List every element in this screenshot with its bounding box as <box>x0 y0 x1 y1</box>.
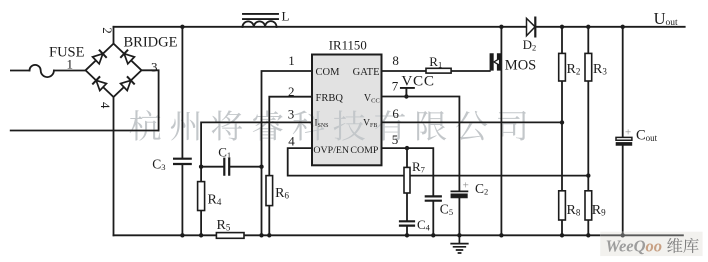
junction dot pin6 R2/R8 <box>560 120 564 124</box>
bridge diode D-d (terminal 4 to 3) <box>120 76 135 91</box>
svg-text:VCC: VCC <box>401 73 434 90</box>
svg-text:8: 8 <box>392 53 399 68</box>
junction dot ground rail C3 <box>180 233 184 237</box>
wire AC input line 1 <box>11 70 30 72</box>
junction dot top rail C3 <box>180 25 184 29</box>
svg-text:4: 4 <box>288 134 295 149</box>
resistor R3 <box>585 53 592 81</box>
junction dot ground rail MOS source <box>499 233 503 237</box>
bridge diode D-c (terminal 4 to 1) <box>92 76 107 91</box>
wire pin 2 FRBQ to R6 <box>269 97 312 176</box>
svg-text:+: + <box>625 126 631 138</box>
wire pin 1 COM to ground <box>262 71 313 235</box>
svg-text:2: 2 <box>288 84 295 99</box>
bridge diode D-a (terminal 1 to 2) <box>92 50 107 65</box>
svg-text:2: 2 <box>100 27 115 34</box>
IC U1 IR1150 body <box>312 55 382 166</box>
svg-text:3: 3 <box>288 107 295 122</box>
wire C3 branch from top rail <box>181 27 183 236</box>
svg-text:IR1150: IR1150 <box>329 38 367 52</box>
junction dot VCC stub <box>404 94 408 98</box>
svg-text:1: 1 <box>67 56 74 71</box>
wire R2 top lead <box>561 27 563 54</box>
wire pin 7 Vcc to C2 <box>382 97 460 191</box>
wire AC input line 2 <box>11 130 159 132</box>
wire pin 4 OVP/EN to R3/R9 divider <box>288 148 589 176</box>
resistor R8 <box>559 191 566 220</box>
svg-text:WeeQoo: WeeQoo <box>606 237 663 256</box>
svg-text:BRIDGE: BRIDGE <box>124 34 178 50</box>
svg-text:FRBQ: FRBQ <box>316 93 344 104</box>
resistor R4 <box>198 182 205 211</box>
capacitor Cout positive plate <box>616 137 632 140</box>
MOSFET Q1 arrow <box>494 59 500 66</box>
resistor R2 <box>559 53 566 81</box>
junction dot ground rail C4 <box>405 233 409 237</box>
junction dot ground rail R6 <box>267 233 271 237</box>
wire bridge terminal 4 down to ground rail <box>113 97 115 235</box>
svg-text:3: 3 <box>151 60 158 75</box>
wire R7 bottom to C4 <box>406 193 408 221</box>
inductor L core bars <box>243 14 278 19</box>
wire R1 to MOS gate <box>451 70 490 72</box>
bridge rectifier BRIDGE diamond <box>86 44 142 97</box>
resistor R5 <box>216 233 244 239</box>
svg-text:GATE: GATE <box>353 67 380 78</box>
wire R3 bottom to OVP node and R9 <box>587 81 589 191</box>
junction dot ground rail C2/earth <box>457 233 461 237</box>
junction dot OVP R3/R9 <box>586 173 590 177</box>
ground symbol <box>451 235 468 253</box>
capacitor C2 negative plate <box>451 194 468 198</box>
junction dot ground rail Cout <box>621 233 625 237</box>
wire bottom ground rail left of R5 <box>114 234 217 236</box>
wire R8 bottom lead <box>561 220 563 235</box>
wire Cout branch <box>622 27 624 236</box>
wire pin 5 COMP to C5 <box>382 148 434 195</box>
wire R7 top lead from COMP node <box>406 148 408 167</box>
junction dot top rail R3 <box>586 25 590 29</box>
junction dot COMP node R7 <box>405 146 409 150</box>
junction dot ground rail R4 <box>199 233 203 237</box>
wire R2 bottom to pin6 node and R8 <box>561 81 563 191</box>
wire pin 8 GATE to R1 <box>382 70 427 72</box>
wire R3 top lead <box>587 27 589 54</box>
power symbol VCC <box>401 88 414 97</box>
svg-text:1: 1 <box>288 53 295 68</box>
wire R4 bottom lead <box>200 211 202 236</box>
wire bridge terminal 2 up to top rail <box>113 27 115 44</box>
capacitor C1 <box>224 159 229 175</box>
svg-text:COMP: COMP <box>350 145 378 156</box>
MOSFET Q1 channel bar <box>497 54 501 71</box>
wire top rail right section (D2 to output) <box>535 26 684 28</box>
inductor L coil <box>243 21 277 27</box>
wire R4 top lead <box>200 167 202 182</box>
svg-text:7: 7 <box>392 79 399 94</box>
wire C4 bottom lead <box>406 227 408 236</box>
watermark box WeeQoo <box>600 232 702 256</box>
wire bottom ground rail right of R5 <box>244 234 684 236</box>
capacitor Cout negative plate <box>616 142 632 145</box>
junction dot ground rail COM <box>259 233 263 237</box>
svg-text:OVP/EN: OVP/EN <box>313 145 349 156</box>
MOSFET Q1 gate bar <box>490 54 494 71</box>
junction dot node Isns (C1/R4) <box>199 165 203 169</box>
resistor R6 <box>266 176 273 206</box>
resistor R1 <box>426 68 451 73</box>
junction dot top rail Cout <box>621 25 625 29</box>
wire top rail left section (to inductor) <box>114 26 243 28</box>
wire R6 bottom to ground rail <box>268 206 270 236</box>
junction dot ground rail R9 <box>586 233 590 237</box>
resistor R7 <box>404 167 410 193</box>
capacitor C3 <box>174 159 191 164</box>
junction dot ground rail C5 <box>431 233 435 237</box>
diode D2 <box>527 18 536 37</box>
wire bridge terminal 3 down to AC line 2 <box>142 70 159 130</box>
junction dot top rail MOS drain <box>499 25 503 29</box>
svg-text:6: 6 <box>392 106 399 121</box>
svg-text:MOS: MOS <box>505 57 536 73</box>
wire top rail middle section (inductor to D2) <box>277 26 527 28</box>
wire fuse to bridge terminal 1 <box>54 70 86 72</box>
wire C1 left lead <box>201 166 223 168</box>
capacitor C4 <box>400 221 414 225</box>
wire R9 bottom lead <box>587 220 589 235</box>
wire C2 bottom lead <box>458 198 460 235</box>
capacitor C5 <box>426 196 441 200</box>
svg-text:+: + <box>463 180 469 192</box>
wire pin 6 Vfb to R2/R8 divider <box>382 121 563 123</box>
resistor R9 <box>585 191 592 220</box>
svg-text:COM: COM <box>316 67 341 78</box>
MOSFET Q1 drain-source line <box>500 27 502 236</box>
watermark text 杭州将睿科技有限公司 <box>130 110 526 141</box>
bridge diode D-b (terminal 3 to 2) <box>120 50 135 65</box>
junction dot top rail R2 <box>560 25 564 29</box>
fuse FUSE <box>30 65 54 77</box>
svg-text:L: L <box>282 9 290 24</box>
junction dot C1 to COM line <box>259 165 263 169</box>
junction dot ground rail R8 <box>560 233 564 237</box>
wire pin 3 Isns down to C1/R4 node <box>201 122 312 166</box>
svg-text:4: 4 <box>98 102 113 109</box>
wire C1 right lead to COM line <box>230 166 261 168</box>
wire C5 bottom lead <box>432 202 434 236</box>
capacitor C2 positive plate <box>451 190 467 192</box>
